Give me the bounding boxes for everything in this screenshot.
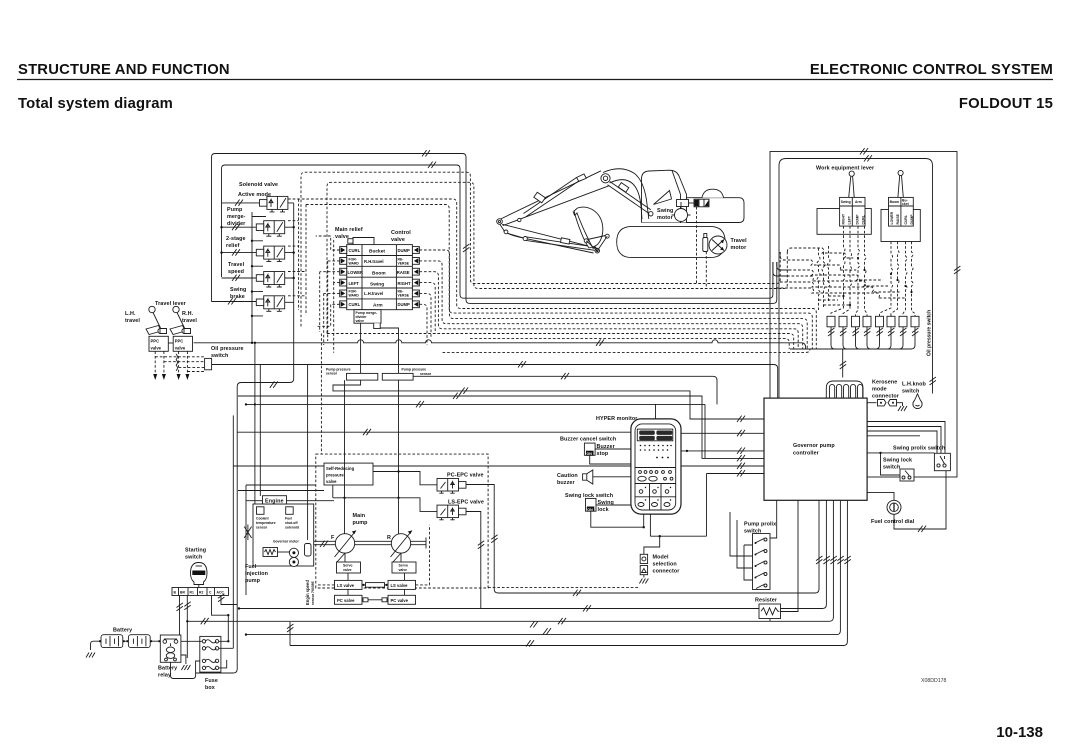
svg-text:valve: valve (399, 568, 408, 572)
hatch on loop B top (428, 162, 436, 168)
svg-text:relief: relief (226, 243, 240, 249)
engine label box (263, 496, 287, 504)
svg-text:LEFT: LEFT (349, 281, 360, 286)
outer box A (770, 152, 957, 478)
svg-text:pump: pump (353, 520, 369, 526)
LS-EPC valve (437, 505, 466, 520)
svg-text:ACC: ACC (217, 591, 225, 595)
travel lever L.H. (146, 306, 167, 334)
svg-text:motor: motor (657, 215, 674, 221)
control valve inner verticals (362, 245, 396, 310)
battery relay bottom loop (171, 661, 202, 679)
svg-text:PPC: PPC (175, 339, 184, 344)
hatch on y631 bus (543, 628, 551, 634)
monitor divider 2 (635, 483, 676, 485)
boom inner edge (610, 180, 643, 219)
long dashed bus y338.6 (470, 339, 789, 349)
svg-text:CURL: CURL (904, 215, 908, 224)
pump pressure sensor 2 (382, 373, 413, 380)
oil pressure switch boxes x8 (827, 316, 919, 327)
prolix to dial wire (894, 471, 946, 529)
svg-text:Fuel control dial: Fuel control dial (871, 519, 915, 525)
link upper edge (502, 224, 598, 248)
svg-text:HYPER monitor: HYPER monitor (596, 416, 638, 422)
monitor top feed (655, 404, 657, 419)
svg-text:switch: switch (902, 389, 919, 395)
kerosene connector ground (897, 403, 903, 406)
hatch on y396 bus (453, 393, 461, 399)
dashed outputs of solenoid valves going right (288, 199, 306, 315)
prolix switch feeder wires (730, 512, 753, 580)
body valve block (694, 199, 709, 207)
terminal strip drops (180, 596, 238, 659)
battery relay ground (181, 655, 186, 664)
kerosene mode connector wire (867, 402, 876, 404)
hatch on y376 bus (561, 373, 569, 379)
svg-text:Arm: Arm (855, 200, 862, 204)
right lever knob (898, 170, 903, 175)
solenoid valve 1 Active mode (260, 196, 288, 212)
pump feed verticals (345, 452, 399, 534)
wave column wires (817, 246, 830, 310)
swing motor link (689, 202, 695, 204)
junction dots right (293, 226, 295, 228)
speed sensor pickup (305, 544, 312, 557)
svg-text:Main relief: Main relief (335, 227, 363, 233)
PPC valve L.H. box (149, 336, 168, 351)
coolant temperature sensor (257, 507, 265, 515)
svg-text:stop: stop (597, 451, 609, 457)
svg-text:solenoid: solenoid (285, 526, 299, 530)
svg-text:Buzzer cancel switch: Buzzer cancel switch (560, 437, 616, 443)
display box (637, 429, 673, 441)
bucket cylinder joint (523, 237, 527, 241)
fuel control dial (887, 500, 901, 514)
svg-text:F: F (331, 535, 335, 541)
svg-text:Oil pressure: Oil pressure (211, 346, 244, 352)
bus y432 to monitor (237, 431, 631, 433)
long solid bus y342.8 (PPC valve line) (194, 340, 806, 349)
svg-text:Swing: Swing (841, 200, 851, 204)
solenoid harness row y313.1 (306, 205, 812, 350)
key to strip wire (198, 585, 200, 588)
engine speed sensor vertical (307, 365, 309, 541)
wave zone cross links (819, 296, 851, 305)
svg-text:Control: Control (391, 230, 411, 236)
small wave crossings (176, 354, 178, 371)
battery link wires (123, 640, 161, 642)
swing lock wires (591, 505, 644, 527)
feed wire to valve4 (222, 277, 257, 279)
svg-text:connector: connector (653, 569, 681, 575)
svg-text:L.H.: L.H. (125, 311, 136, 317)
inner rounded box B (779, 159, 933, 399)
pilot dashed wires right group (880, 242, 916, 317)
lower grid (635, 484, 676, 511)
svg-text:Travel: Travel (731, 238, 748, 244)
left lever shaft (849, 176, 855, 197)
solenoid valve 5 Swing brake (256, 296, 284, 312)
cab window line (672, 171, 681, 223)
bucket linkage bars (586, 236, 607, 251)
svg-text:speed: speed (228, 269, 244, 275)
bucket linkage circles (605, 234, 609, 238)
governor motor resistor box (263, 548, 278, 557)
right vertical words (890, 211, 914, 224)
vertical x705 (704, 404, 706, 458)
control valve main rect (347, 245, 413, 310)
svg-text:R2: R2 (199, 591, 203, 595)
indicator dot rows (640, 445, 672, 459)
model selection connector wire (644, 536, 660, 554)
arm cylinder top bracket (577, 174, 587, 181)
svg-text:Engin speed: Engin speed (305, 580, 310, 605)
servo to LS vertical links (348, 573, 405, 595)
battery relay box (160, 635, 181, 662)
bucket cylinder tubes (526, 237, 596, 251)
travel motor circle (709, 236, 727, 254)
svg-text:injection: injection (245, 571, 268, 577)
travel lever R.H. (170, 306, 191, 334)
cab wedge detail (654, 191, 672, 205)
shaft end (411, 538, 426, 549)
solenoid valve 3 2-stage relief (256, 246, 284, 262)
track (617, 226, 726, 257)
control valve row y328.8 (419, 272, 798, 349)
svg-text:lock: lock (598, 507, 609, 513)
svg-text:FOLDOUT 15: FOLDOUT 15 (959, 96, 1053, 112)
button row circles (638, 471, 673, 482)
dashed pilot lines below PPC with arrows (155, 351, 187, 375)
svg-text:Fuse: Fuse (205, 678, 218, 684)
svg-text:Pump prolix: Pump prolix (744, 522, 776, 528)
hatch on y364.5 bus (518, 361, 526, 367)
hatch on loop A right leg (463, 244, 469, 252)
dashed loop C (301, 172, 780, 326)
svg-text:Model: Model (653, 555, 669, 561)
svg-text:valve: valve (356, 319, 365, 323)
solenoid valve 2 Pump merge-divider (256, 221, 284, 237)
long dashed bus y333.5 (327, 334, 794, 350)
model selection connector (640, 554, 647, 563)
inter-pump shaft (355, 541, 392, 544)
hatch on y404 bus (416, 401, 424, 407)
left lower vertical x233 (232, 415, 234, 648)
pump pressure sensor 1 (347, 373, 378, 380)
PC valve R (388, 595, 416, 604)
svg-text:DUMP: DUMP (910, 214, 914, 225)
solenoid right bus vertical x293.7 (293, 203, 295, 307)
bucket cylinder collar (561, 238, 570, 244)
svg-text:shut-off: shut-off (285, 521, 298, 525)
hatch on y432 bus (363, 429, 371, 435)
hatch on y621 bus (201, 618, 209, 624)
dashed drop from travel motor (705, 252, 707, 289)
right connector tabs (412, 247, 419, 254)
svg-text:BR: BR (180, 591, 185, 595)
svg-text:Starting: Starting (185, 548, 206, 554)
controller wire y450.9 from monitor (681, 450, 764, 452)
svg-text:LOWER: LOWER (348, 270, 364, 275)
hatch on y608 bus (583, 605, 591, 611)
engine hood hump (702, 189, 724, 198)
long solid bus y364.5 (oil pressure switch line) (212, 365, 778, 399)
dashed stub to LS row (316, 525, 430, 585)
hatch on that wire (270, 381, 278, 387)
servo valve R (392, 562, 416, 573)
hatch on y391 bus (460, 388, 468, 394)
svg-text:PC-EPC valve: PC-EPC valve (447, 473, 484, 479)
body (642, 198, 745, 223)
boom outer edge (603, 169, 649, 219)
svg-text:LOWER: LOWER (890, 211, 894, 224)
engine fan (244, 525, 251, 541)
svg-text:Caution: Caution (557, 473, 578, 479)
monitor bottom wires (644, 514, 707, 536)
solenoid valve 4 Travel speed (256, 272, 284, 288)
bottom bus y621 (187, 500, 833, 621)
mid-left line y500 (246, 500, 334, 502)
svg-text:Travel lever: Travel lever (155, 301, 187, 307)
starting switch terminal strip (172, 588, 229, 596)
svg-text:valve: valve (391, 237, 405, 243)
svg-text:Travel: Travel (228, 262, 245, 268)
fuel shut-off solenoid (286, 507, 294, 515)
svg-text:R.H.: R.H. (182, 311, 194, 317)
svg-text:WARD: WARD (349, 262, 360, 266)
connector coil bundle on controller (830, 384, 863, 398)
left lower vertical x228 (227, 615, 229, 641)
sensor2 down wire (398, 380, 400, 454)
svg-text:R.H.travel: R.H.travel (364, 259, 384, 264)
travel motor cylinder (703, 238, 708, 252)
svg-text:motor: motor (731, 245, 748, 251)
dashed links to oil pressure switch (155, 357, 205, 372)
svg-text:CURL: CURL (349, 248, 361, 253)
battery ground wire (91, 641, 102, 650)
boom cylinder tubes (608, 182, 651, 214)
svg-text:RIGHT: RIGHT (398, 281, 411, 286)
dashed loop D (327, 182, 787, 333)
svg-text:travel: travel (182, 318, 197, 324)
svg-text:Main: Main (353, 513, 366, 519)
right lever shaft (898, 176, 903, 198)
bucket shell (574, 207, 603, 248)
svg-text:RAISE: RAISE (397, 270, 410, 275)
svg-text:sensor 76039E: sensor 76039E (311, 581, 315, 605)
svg-text:pump: pump (245, 578, 261, 584)
svg-text:Fuel: Fuel (285, 517, 292, 521)
svg-text:PC valve: PC valve (337, 598, 355, 603)
mid-left line y485 (246, 484, 316, 486)
svg-text:travel: travel (125, 318, 140, 324)
svg-text:selection: selection (653, 562, 677, 568)
wire frame loop B (inner solid) (222, 165, 773, 298)
left connector tabs (340, 247, 347, 254)
controller wire y433 from monitor (681, 432, 764, 434)
self-reducing pressure valve (324, 463, 373, 485)
left PPC header box Swing Arm (840, 197, 865, 226)
left vertical words (842, 213, 866, 224)
svg-text:Swing prolix switch: Swing prolix switch (893, 446, 945, 452)
controller bottom verticals (770, 500, 798, 611)
svg-text:DUMP: DUMP (856, 214, 860, 225)
svg-text:cket: cket (902, 202, 910, 206)
solenoid harness row y308.5 (288, 199, 816, 349)
engine box (253, 504, 314, 566)
svg-text:buzzer: buzzer (557, 480, 575, 486)
controller right wires to switches (867, 422, 945, 454)
relay to fuse wire (181, 640, 202, 642)
PC-EPC valve (437, 479, 466, 494)
svg-text:merge-: merge- (227, 214, 246, 220)
dashed drop from body valve (696, 207, 698, 284)
svg-text:DUMP: DUMP (398, 302, 411, 307)
link joint circle (504, 230, 508, 234)
svg-text:10-138: 10-138 (996, 724, 1043, 741)
fuse outputs (219, 641, 234, 668)
svg-text:ELECTRONIC CONTROL SYSTEM: ELECTRONIC CONTROL SYSTEM (810, 62, 1053, 78)
svg-text:LS-EPC valve: LS-EPC valve (448, 500, 484, 506)
vertical x260 (259, 365, 261, 497)
svg-text:switch: switch (883, 465, 900, 471)
bucket back inner edge (577, 213, 594, 250)
svg-text:CURL: CURL (862, 215, 866, 224)
cab (642, 170, 687, 222)
swing lock switch symbol (900, 469, 914, 481)
bottom bus y608 (239, 500, 826, 609)
hatch on y342.8 bus (596, 339, 604, 345)
svg-text:Fuel: Fuel (245, 564, 257, 570)
dashed stub y587.6 to monitor area (488, 587, 640, 589)
feed wire to valve5 (from loop A left leg) (212, 301, 257, 303)
dashed wires right of control valve (419, 283, 435, 345)
svg-text:DUMP: DUMP (398, 248, 411, 253)
switch box output wires with hatches (790, 327, 918, 378)
svg-text:temperature: temperature (256, 521, 276, 525)
bus y404 (246, 403, 705, 405)
svg-text:Swing: Swing (657, 208, 673, 214)
boom cylinder rod end (649, 212, 653, 216)
svg-text:ON: ON (587, 508, 593, 512)
vertical x254.9 PPC junction down to engine (254, 343, 256, 504)
svg-text:STRUCTURE AND FUNCTION: STRUCTURE AND FUNCTION (18, 62, 230, 78)
boom cylinder collar (618, 183, 629, 193)
boom top pivot (601, 174, 610, 183)
svg-text:VERSE: VERSE (398, 262, 410, 266)
svg-text:WARD: WARD (349, 294, 360, 298)
valve right taps (285, 203, 294, 302)
svg-text:Pump: Pump (227, 207, 243, 213)
long solid bus y376 (pump pressure sensor line) (413, 376, 717, 404)
svg-text:Boom: Boom (890, 200, 900, 204)
kerosene connector clips (878, 400, 897, 406)
buzzer stop wire (590, 449, 631, 464)
sensor1 wire to y391 bus (333, 380, 764, 419)
bus y466 from left to controller (233, 465, 764, 467)
svg-text:controller: controller (793, 451, 820, 457)
PC link connectors (362, 599, 388, 601)
svg-text:Governor motor: Governor motor (273, 540, 299, 544)
bottom bus y631 (246, 500, 840, 635)
link between PPC boxes (168, 342, 173, 344)
svg-text:LS valve: LS valve (337, 583, 355, 588)
fuse box (200, 636, 221, 672)
monitor divider 1 (635, 467, 676, 469)
svg-text:Resister: Resister (755, 598, 778, 604)
svg-text:X08DD178: X08DD178 (921, 678, 946, 684)
vertical x246 (245, 485, 247, 595)
resister (759, 604, 781, 619)
relief valve nub (348, 239, 353, 244)
svg-text:RIGHT: RIGHT (842, 213, 846, 224)
starting switch key (191, 563, 208, 585)
servo diagonal links (337, 553, 401, 562)
svg-text:valve: valve (175, 346, 186, 351)
bottom bus y643 (290, 500, 847, 646)
wire frame loop A (outer solid, left section to work-lever box) (212, 154, 777, 304)
F pump (335, 534, 354, 553)
svg-text:valve: valve (343, 568, 352, 572)
LS valve R (388, 580, 416, 589)
buzzer stop switch (584, 443, 595, 455)
main relief valve box (353, 238, 374, 245)
svg-text:PC valve: PC valve (391, 598, 409, 603)
hatches on y593 bus (573, 590, 581, 596)
battery cell 1 (101, 635, 123, 648)
governor motor (289, 548, 298, 557)
svg-text:R1: R1 (190, 591, 194, 595)
svg-text:Swing: Swing (230, 287, 246, 293)
junction dots on return (220, 226, 222, 228)
bus y396 (238, 396, 764, 458)
wire solenoid area down to engine (196, 307, 294, 673)
racetrack hooks into wave zone (787, 248, 853, 258)
svg-text:Servo: Servo (343, 564, 352, 568)
svg-text:pressure: pressure (326, 473, 344, 478)
hatches on governor bottom verticals (816, 556, 822, 564)
svg-text:Active mode: Active mode (238, 192, 271, 198)
svg-text:Self-Reducing: Self-Reducing (326, 466, 355, 471)
svg-text:R: R (387, 535, 391, 541)
wire to LS-EPC (333, 485, 437, 511)
feed wire to valve3 (222, 252, 257, 254)
svg-text:switch: switch (211, 353, 228, 359)
svg-text:switch: switch (185, 555, 202, 561)
svg-text:Swing: Swing (370, 281, 384, 287)
svg-text:Battery: Battery (158, 666, 177, 672)
controller wire y473.5 (707, 474, 765, 537)
svg-text:mode: mode (872, 387, 887, 393)
mid-left line y490 (238, 490, 324, 492)
arm bottom edge (503, 186, 609, 226)
L.H. knob switch symbol (913, 394, 922, 409)
svg-text:LEFT: LEFT (848, 215, 852, 224)
svg-text:Oil pressure switch: Oil pressure switch (927, 310, 933, 356)
battery cell 2 (128, 635, 150, 648)
swing lock switch (monitor) (586, 498, 597, 511)
svg-text:L.H.knob: L.H.knob (902, 382, 926, 388)
svg-text:Coolant: Coolant (256, 517, 269, 521)
hatch on PC-EPC drop (491, 535, 497, 543)
svg-text:relay: relay (158, 673, 171, 679)
left wide pilot box (817, 209, 871, 235)
control valve row lines (347, 256, 413, 299)
svg-text:Servo: Servo (399, 564, 408, 568)
arm cylinder rod joint (518, 218, 521, 221)
svg-text:VERSE: VERSE (398, 294, 410, 298)
bucket far joint (497, 219, 503, 225)
